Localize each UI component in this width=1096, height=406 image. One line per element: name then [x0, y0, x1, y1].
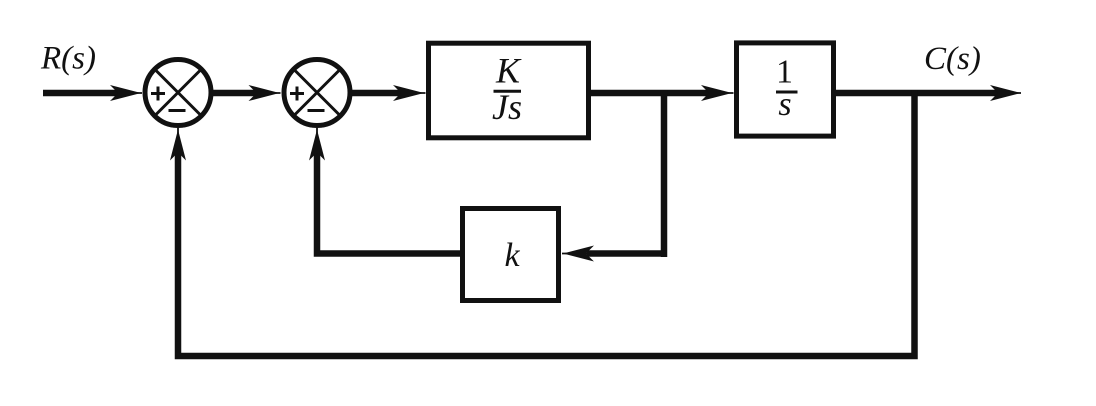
wire 1/s to output C(s) with takeoff node	[836, 85, 1021, 101]
node C(s) output label	[924, 41, 981, 77]
minus sign at S1	[169, 109, 186, 112]
node R(s) input label	[40, 41, 96, 77]
svg-text:k: k	[504, 237, 520, 274]
wire inner feedback into block k (arrow left)	[562, 246, 667, 262]
svg-text:C(s): C(s)	[924, 41, 981, 77]
plus sign at S2	[290, 87, 304, 101]
wire inner feedback takeoff down from node after K/Js	[661, 90, 668, 257]
wire outer feedback from output node down, across, and up	[178, 90, 915, 356]
summing junction S1	[145, 60, 211, 126]
wire S2 to block K/Js	[351, 85, 426, 101]
svg-text:1: 1	[776, 54, 793, 91]
svg-text:K: K	[495, 51, 522, 91]
block 1/s	[737, 43, 834, 136]
minus sign at S2	[308, 109, 325, 112]
summing junction S2	[284, 60, 350, 126]
block K/Js	[429, 43, 589, 138]
wire K/Js to block 1/s with takeoff node	[590, 85, 734, 101]
svg-text:Js: Js	[492, 87, 522, 127]
wire arrow up into S1 (minus input)	[170, 128, 186, 161]
block k	[463, 209, 559, 301]
svg-text:s: s	[778, 86, 791, 123]
plus sign at S1	[151, 87, 165, 101]
wire input R(s) to summing junction S1	[43, 85, 142, 101]
wire S1 to summing junction S2	[212, 85, 281, 101]
svg-text:R(s): R(s)	[40, 41, 96, 77]
wire arrow up into S2 (minus input)	[309, 128, 325, 161]
wire block k output left then up	[317, 153, 460, 254]
